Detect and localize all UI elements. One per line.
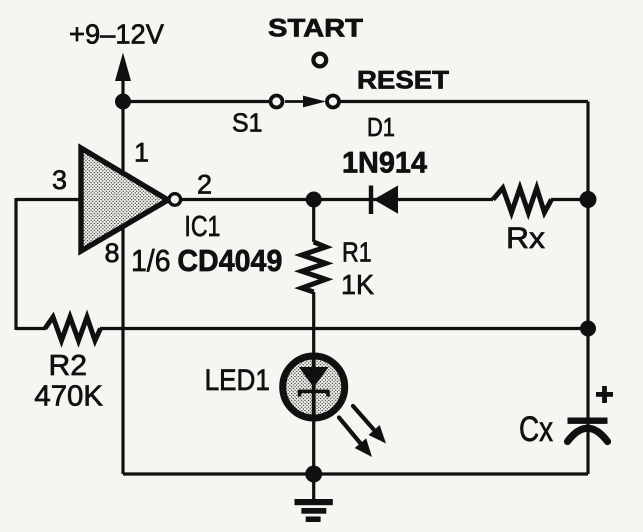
op-amp/inverter IC1 triangle	[81, 148, 168, 251]
svg-text:3: 3	[52, 165, 67, 195]
diode D1 triangle	[374, 186, 399, 214]
LED emission arrow lower	[339, 418, 372, 458]
capacitor + polarity mark	[596, 386, 613, 403]
junction dot LED/ground	[305, 466, 322, 483]
svg-text:Rx: Rx	[506, 222, 545, 255]
LED1 circle	[283, 356, 345, 418]
wire: Rx right lead to right rail	[551, 198, 588, 201]
switch S1 contact right	[327, 96, 339, 108]
wire: ground stub	[312, 474, 315, 501]
svg-text:Cx: Cx	[519, 410, 553, 449]
svg-text:1K: 1K	[341, 269, 374, 300]
inverter output bubble	[169, 194, 181, 206]
wire: top rail from supply junction to S1 left contact	[123, 100, 271, 103]
wire: R1 / LED vertical branch	[312, 200, 315, 243]
LED1 cathode bar	[298, 390, 330, 397]
svg-text:CD4049: CD4049	[177, 243, 282, 278]
capacitor Cx curved plate	[568, 428, 608, 441]
ground symbol	[295, 499, 333, 522]
svg-text:START: START	[268, 15, 363, 43]
diode D1 cathode bar	[369, 186, 373, 215]
wire: output node from bubble to Rx left	[181, 198, 493, 201]
svg-text:1N914: 1N914	[342, 147, 427, 180]
svg-text:1/6: 1/6	[131, 243, 171, 278]
wire: feedback rail left of R2	[16, 327, 46, 330]
resistor R2 zigzag	[45, 317, 101, 341]
wire: RESET rail from S1 right contact to right rail	[339, 100, 588, 103]
svg-text:2: 2	[197, 169, 212, 199]
wire: input pin 3 lead	[16, 198, 84, 201]
svg-text:S1: S1	[232, 108, 263, 138]
wire: LED anode/cathode through circle	[312, 356, 316, 420]
wire: feedback rail from R2 to right rail	[100, 327, 588, 330]
junction dot output/R1	[306, 192, 322, 208]
junction dot supply	[115, 94, 131, 110]
svg-text:D1: D1	[367, 112, 395, 142]
svg-text:RESET: RESET	[357, 67, 449, 95]
svg-text:LED1: LED1	[205, 364, 270, 397]
wire: bottom rail	[123, 472, 588, 475]
svg-text:1: 1	[134, 138, 149, 168]
switch S1 contact left	[271, 96, 283, 108]
LED emission arrow upper	[353, 406, 386, 444]
svg-text:470K: 470K	[34, 381, 103, 413]
junction dot feedback/right rail	[580, 321, 596, 337]
svg-text:IC1: IC1	[184, 211, 220, 243]
svg-text:8: 8	[105, 238, 120, 268]
junction dot Rx/right rail	[580, 191, 597, 208]
resistor Rx zigzag	[493, 188, 552, 213]
svg-text:R2: R2	[49, 350, 88, 382]
wire: supply vertical through inverter down to bottom rail	[121, 78, 124, 474]
svg-text:R1: R1	[342, 237, 372, 268]
LED1 diode triangle	[299, 367, 329, 388]
capacitor Cx top plate	[568, 418, 608, 424]
wire: right vertical rail	[586, 102, 589, 475]
wire: left vertical feedback	[14, 198, 17, 330]
switch S1 arrow	[285, 96, 326, 108]
supply arrow +9-12V	[115, 53, 131, 82]
START pushbutton circle	[313, 54, 326, 67]
svg-text:+9–12V: +9–12V	[69, 19, 164, 50]
resistor R1 zigzag	[302, 242, 326, 292]
